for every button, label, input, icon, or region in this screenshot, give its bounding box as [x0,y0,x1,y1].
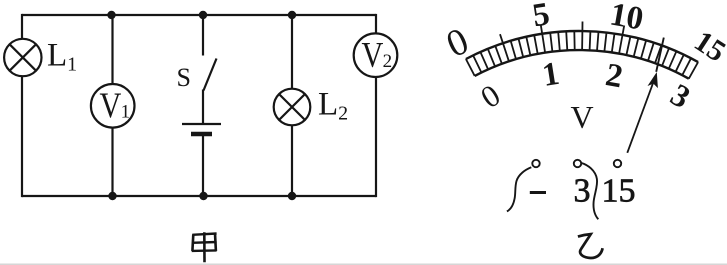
svg-text:15: 15 [688,24,727,68]
svg-text:10: 10 [607,0,646,38]
svg-text:0: 0 [474,77,506,115]
svg-text:2: 2 [603,57,626,95]
junction node: bottom wire / V1 branch [108,192,116,200]
svg-text:1: 1 [121,102,131,123]
wire: battery to bottom [202,134,204,196]
label yi (乙) caption of meter [578,234,603,258]
svg-text:3: 3 [665,76,697,115]
svg-text:0: 0 [440,20,474,66]
junction node: top wire / L2 branch [288,11,296,19]
wire: L2 branch lower [291,125,293,196]
wire: L2 branch upper [291,15,293,89]
wire: right wire below V2 [375,77,377,197]
terminal post (15V) [614,160,621,167]
wire: right wire above V2 [375,14,377,34]
switch S blade [204,59,217,91]
faint page-edge scan line at bottom [0,263,727,265]
svg-text:1: 1 [540,56,562,94]
needle arrow pointing at 13 on scale [627,72,658,153]
junction node: bottom wire / L2 branch [288,192,296,200]
wire: switch branch upper [202,15,204,56]
terminal post (3V) [574,160,581,167]
lamp L1 [4,39,41,76]
svg-text:5: 5 [530,0,552,34]
meter scale major tick stubs at 2.5,5,7.5,10 [500,22,624,44]
terminal post (minus) [532,160,539,167]
wire: circuit outer rectangle bottom side [22,195,376,197]
label minus terminal [530,191,546,194]
lamp L2 [274,89,311,126]
wire: circuit outer rectangle top side [22,14,376,16]
wire: V1 branch upper [111,15,113,85]
meter scale inner arc [475,50,689,79]
label jia (甲) caption of circuit [192,232,217,262]
wire: left wire above lamp L1 [21,14,23,39]
svg-text:V: V [362,35,384,75]
voltmeter V1 [91,84,135,128]
wire: switch to battery [202,90,204,125]
junction node: top wire / V1 branch [107,11,115,19]
meter scale minor tick marks (30 divisions) [466,31,698,79]
voltmeter V2 [354,33,398,77]
svg-text:V: V [100,86,122,126]
svg-text:15: 15 [602,173,636,210]
label V2 (inside meter) [362,35,393,75]
svg-text:S: S [177,63,191,92]
meter scale outer arc [466,31,698,62]
meter scale long tick at 12.5 (pointed by arrow) [656,38,664,72]
svg-text:V: V [571,99,594,135]
svg-text:3: 3 [574,173,591,210]
junction node: top wire / switch branch [199,11,207,19]
label V1 (inside meter) [100,86,131,126]
svg-text:L1: L1 [47,38,77,76]
terminal lead squiggle (3V post) [581,163,599,220]
wire: V1 branch lower [111,128,113,197]
terminal lead squiggle (minus post) [507,167,531,211]
junction node: bottom wire / switch branch [199,192,207,200]
svg-text:L2: L2 [318,87,348,125]
svg-text:2: 2 [383,51,393,72]
wire: left wire below lamp L1 [21,76,23,197]
battery short plate [191,132,212,136]
battery long plate [182,123,221,125]
